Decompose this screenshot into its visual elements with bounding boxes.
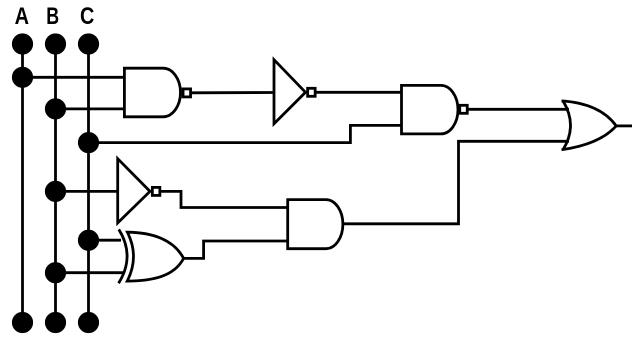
svg-text:B: B: [46, 3, 59, 30]
wire: U5 output right, down, to AND U7 top input: [161, 191, 288, 207]
wire: vertical input line C: [87, 44, 90, 323]
inverter U5 triangle: [118, 159, 150, 223]
XOR gate U6 body: [127, 232, 183, 281]
XOR gate U6 input arc: [119, 229, 128, 283]
NAND gate U1 output bubble: [183, 89, 191, 97]
wire: B junction to U1 bottom input: [56, 108, 125, 111]
AND gate U7 body: [288, 200, 343, 249]
inverter U2 triangle: [274, 60, 306, 124]
junction node B to XOR U6: [46, 264, 64, 282]
junction node A to NAND U1: [13, 68, 31, 86]
wire: U3 output to OR U4 top input: [469, 108, 570, 111]
OR gate U4 body: [562, 101, 617, 150]
junction node B to inverter U5: [46, 182, 64, 200]
wire: OR U4 output: [616, 125, 632, 128]
inverter U2 output bubble: [308, 88, 316, 96]
wire: B junction to U5 input: [56, 190, 118, 193]
NAND gate U3 body: [402, 85, 458, 133]
terminal dot A bottom: [13, 313, 31, 331]
inverter U5 output bubble: [152, 187, 160, 195]
terminal dot C top: [79, 35, 97, 53]
NAND gate U1 body: [124, 68, 180, 117]
wire: B junction to U6 bottom input: [56, 271, 124, 274]
junction node B to NAND U1: [46, 100, 64, 118]
wire: C junction right then up to NAND U3 bottom input: [89, 125, 402, 142]
svg-text:C: C: [80, 3, 95, 30]
junction node C to XOR U6: [79, 231, 97, 249]
wire: U6 output right, up, to AND U7 bottom input: [184, 241, 288, 258]
wire: A junction to U1 top input: [23, 76, 125, 79]
terminal dot A top: [13, 35, 31, 53]
terminal dot B top: [46, 35, 64, 53]
wire: U1 output to inverter U2 input: [192, 91, 274, 94]
NAND gate U3 output bubble: [460, 105, 468, 113]
wire: vertical input line A: [21, 44, 24, 323]
terminal dot C bottom: [79, 313, 97, 331]
OR gate U4 back arc: [563, 101, 571, 150]
wire: U7 output right, up, to OR U4 bottom input: [343, 141, 569, 224]
junction node C to long wire: [79, 133, 97, 151]
terminal dot B bottom: [46, 313, 64, 331]
wire: U2 output to NAND U3 top input: [316, 91, 401, 94]
wire: C junction to U6 top input: [89, 239, 122, 242]
wire: vertical input line B: [54, 44, 57, 323]
svg-text:A: A: [15, 3, 30, 30]
